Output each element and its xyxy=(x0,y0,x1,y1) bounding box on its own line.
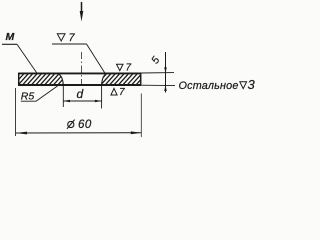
svg-text:Остальное: Остальное xyxy=(179,80,239,92)
svg-text:d: d xyxy=(77,87,84,101)
svg-text:7: 7 xyxy=(69,32,76,44)
svg-text:60: 60 xyxy=(78,119,92,131)
svg-text:3: 3 xyxy=(248,77,256,92)
svg-text:7: 7 xyxy=(126,63,132,74)
svg-text:7: 7 xyxy=(119,87,125,98)
svg-text:М: М xyxy=(6,31,15,43)
